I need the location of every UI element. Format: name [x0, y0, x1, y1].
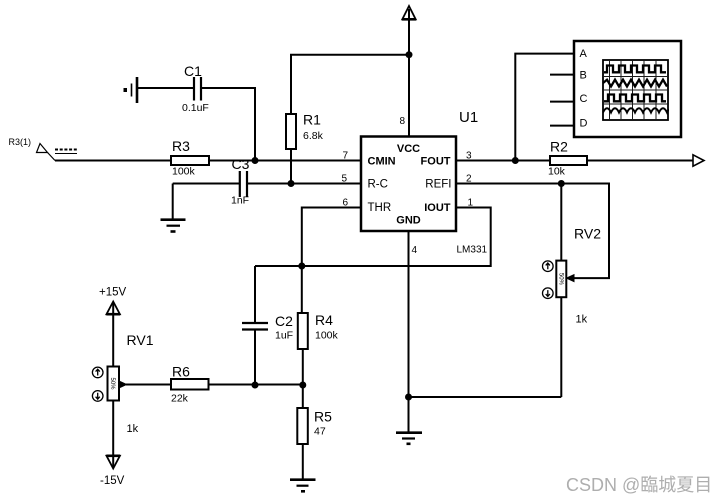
wire scope channel C stub: [550, 101, 574, 103]
wire VCC to pin8: [408, 9, 410, 136]
svg-text:B: B: [580, 70, 587, 82]
op-amp U1 LM331 body: [361, 109, 488, 256]
wire input to R3: [55, 160, 171, 162]
svg-text:7: 7: [342, 151, 348, 162]
node junction VCC rail: [406, 51, 413, 58]
svg-text:47: 47: [314, 426, 326, 438]
svg-text:50%: 50%: [109, 377, 115, 390]
RV2 adjust up symbol: [543, 261, 554, 272]
capacitor C2: [242, 266, 293, 385]
svg-text:1k: 1k: [576, 314, 588, 326]
potentiometer RV1: [106, 302, 153, 469]
svg-text:C1: C1: [184, 63, 202, 79]
svg-text:R6: R6: [172, 364, 190, 380]
node junction R1/R-C: [288, 180, 295, 187]
svg-text:+15V: +15V: [99, 287, 127, 299]
svg-text:100k: 100k: [315, 330, 339, 342]
svg-text:R3(1): R3(1): [9, 137, 32, 147]
output arrow: [693, 155, 704, 166]
wire R6 line: [126, 384, 171, 386]
wire R3 to CMIN pin7: [209, 160, 361, 162]
oscilloscope box: [574, 41, 681, 137]
wire scope channel B stub: [550, 74, 574, 76]
ground left: [161, 220, 186, 232]
svg-text:R2: R2: [550, 139, 568, 155]
wire R1 bottom to R-C junction: [290, 149, 292, 184]
wire C1 to junction: [202, 88, 255, 161]
resistor R2: [548, 139, 587, 178]
wire R2 to output arrow: [587, 160, 693, 162]
svg-text:LM331: LM331: [457, 245, 488, 256]
svg-text:1uF: 1uF: [275, 330, 293, 342]
svg-text:5: 5: [341, 174, 347, 185]
svg-text:THR: THR: [368, 202, 392, 214]
svg-text:U1: U1: [459, 109, 478, 126]
wire RV2 bottom to GND line: [409, 396, 562, 398]
svg-text:A: A: [580, 48, 588, 60]
RV1 adjust down symbol: [92, 391, 103, 402]
svg-text:CSDN @臨城夏目: CSDN @臨城夏目: [566, 475, 712, 495]
wire FOUT pin3 to R2: [456, 160, 550, 162]
svg-text:FOUT: FOUT: [421, 156, 451, 168]
resistor R5: [297, 408, 332, 444]
svg-text:GND: GND: [396, 215, 421, 227]
svg-text:4: 4: [412, 245, 418, 256]
svg-text:R1: R1: [303, 112, 321, 128]
node junction REFI/RV2: [558, 180, 565, 187]
node junction scope A: [512, 157, 519, 164]
ground under R5: [290, 480, 316, 492]
power VCC arrow: [402, 6, 416, 19]
wire IOUT pin1: [255, 208, 491, 267]
svg-text:50%: 50%: [557, 273, 563, 286]
svg-text:R-C: R-C: [368, 179, 388, 191]
wire to left ground: [172, 184, 174, 220]
svg-text:6.8k: 6.8k: [303, 130, 324, 142]
svg-text:RV2: RV2: [574, 226, 601, 242]
node R3(1) input port: [9, 137, 78, 161]
wire R5 to ground: [302, 444, 304, 479]
oscilloscope screen: [603, 60, 669, 120]
svg-text:0.1uF: 0.1uF: [182, 102, 209, 114]
wire scope channel D stub: [550, 125, 574, 127]
svg-text:1k: 1k: [127, 423, 139, 435]
electrode symbol at C1 left: [124, 77, 138, 103]
svg-text:RV1: RV1: [127, 332, 154, 348]
resistor R4: [298, 312, 339, 349]
node junction THR/IOUT: [298, 263, 305, 270]
svg-text:22k: 22k: [171, 393, 189, 405]
svg-text:C: C: [580, 93, 588, 105]
wire REFI pin2: [456, 184, 609, 279]
svg-text:R3: R3: [172, 138, 190, 154]
svg-text:1nF: 1nF: [231, 195, 249, 207]
ground under IC: [396, 433, 422, 444]
wire THR pin6: [302, 208, 361, 267]
wire electrode to C1: [138, 87, 193, 89]
wire R-C line left end to C3: [173, 183, 240, 185]
capacitor C1: [182, 63, 209, 114]
svg-text:D: D: [580, 118, 588, 130]
svg-text:R4: R4: [315, 312, 333, 328]
svg-text:100k: 100k: [172, 166, 196, 178]
resistor R3: [171, 138, 209, 178]
wire GND pin4 down: [408, 231, 410, 432]
wire R1 top to VCC rail: [291, 55, 409, 114]
node junction C2 bottom: [252, 382, 259, 389]
svg-text:10k: 10k: [548, 166, 566, 178]
node junction C1/CMIN: [252, 157, 259, 164]
node junction R4/R5/R6: [299, 382, 306, 389]
svg-text:C3: C3: [232, 156, 250, 172]
svg-text:REFI: REFI: [425, 179, 451, 191]
wire C3 to R-C pin5: [247, 183, 361, 185]
svg-text:8: 8: [399, 116, 405, 127]
potentiometer RV2: [556, 184, 601, 398]
wire scope channel A: [515, 54, 574, 161]
svg-text:C2: C2: [275, 313, 293, 329]
svg-text:-15V: -15V: [100, 475, 125, 487]
resistor R6: [171, 364, 209, 405]
resistor R1: [286, 112, 324, 150]
wire THR junction to R4: [301, 266, 303, 313]
wire junction to R5: [302, 385, 304, 408]
wire R4 to junction: [302, 349, 304, 385]
node junction GND/RV2: [405, 394, 412, 401]
svg-text:CMIN: CMIN: [368, 156, 396, 168]
wire R6 to junction: [209, 384, 303, 386]
RV2 adjust down symbol: [543, 288, 554, 299]
capacitor C3: [231, 156, 250, 207]
svg-text:IOUT: IOUT: [424, 202, 451, 214]
svg-text:R5: R5: [314, 409, 332, 425]
svg-text:VCC: VCC: [397, 143, 420, 155]
RV1 adjust up symbol: [92, 367, 103, 378]
